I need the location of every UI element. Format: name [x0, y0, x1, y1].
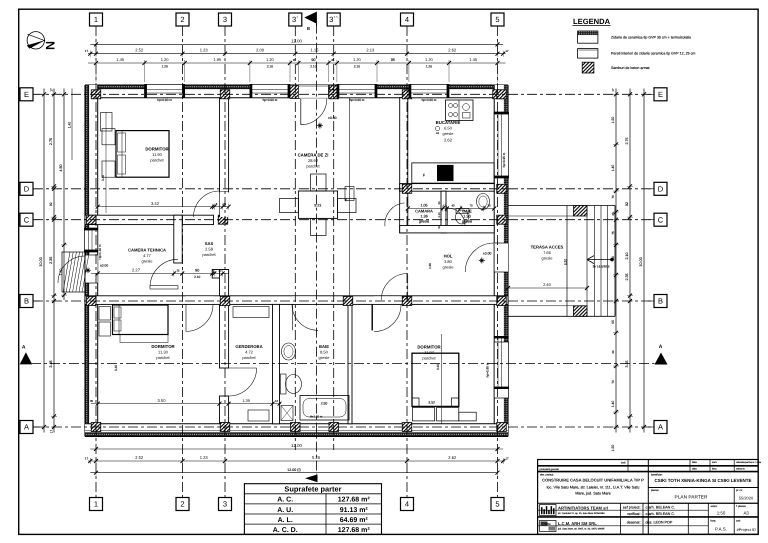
door camara (from living) — [400, 203, 407, 225]
svg-text:parchet: parchet — [242, 355, 256, 360]
svg-text:den. proiect:: den. proiect: — [540, 473, 554, 476]
svg-text:2.10: 2.10 — [438, 212, 441, 218]
svg-text:95: 95 — [391, 58, 395, 62]
svg-text:2.75: 2.75 — [49, 138, 53, 145]
axis grid lines — [95, 26, 97, 498]
svg-text:A. C.: A. C. — [277, 497, 293, 504]
svg-text:A. U.: A. U. — [277, 507, 293, 514]
svg-text:sem.: sem. — [712, 461, 718, 464]
logo lcm — [540, 521, 557, 532]
svg-text:cod:: cod: — [736, 520, 741, 523]
svg-text:A: A — [658, 423, 663, 432]
svg-text:str. Careiului 11, ap. 10, Sat: str. Careiului 11, ap. 10, Satu Mare ROM… — [558, 512, 605, 515]
svg-text:A3: A3 — [744, 511, 750, 516]
svg-text:28.92: 28.92 — [308, 158, 319, 163]
svg-text:2.58: 2.58 — [205, 247, 214, 252]
title block — [538, 460, 759, 535]
svg-text:17: 17 — [50, 88, 54, 92]
window right wall (dorm3) — [494, 342, 508, 398]
dim camara/baie row — [408, 208, 494, 210]
svg-text:1.40: 1.40 — [611, 165, 615, 172]
svg-text:BAIE: BAIE — [319, 344, 329, 349]
svg-text:c.arh. BELEAN C.: c.arh. BELEAN C. — [646, 512, 676, 516]
svg-text:A. C. D.: A. C. D. — [273, 527, 298, 534]
svg-text:proiectant general: proiectant general — [540, 468, 560, 471]
svg-text:CONSTRUIRE CASA DELOCUIT UNIFA: CONSTRUIRE CASA DELOCUIT UNIFAMILIALA TI… — [542, 478, 644, 483]
section line B-B — [316, 24, 318, 475]
svg-text:90: 90 — [195, 269, 199, 273]
svg-text:L.C.M. ARH SM SRL: L.C.M. ARH SM SRL — [558, 521, 597, 526]
svg-text:PLAN PARTER: PLAN PARTER — [675, 494, 708, 500]
window left wall (camera tehnica) — [84, 228, 97, 252]
axis boxes top — [90, 13, 103, 26]
interior wall gerderoba/baie2 — [273, 304, 280, 423]
svg-text:B: B — [24, 297, 29, 306]
svg-text:Pereti interiori de zidarie ce: Pereti interiori de zidarie ceramica tip… — [611, 52, 695, 56]
interior wall SAS bottom stub — [212, 270, 228, 279]
svg-text:4: 4 — [405, 500, 409, 509]
svg-text:jud. Satu Mare, str. 1907, nr.: jud. Satu Mare, str. 1907, nr. 20, SATU … — [557, 528, 605, 531]
svg-text:parchet: parchet — [202, 252, 216, 257]
svg-text:95: 95 — [611, 320, 615, 324]
svg-text:C: C — [24, 215, 30, 224]
svg-text:1.39: 1.39 — [242, 398, 250, 403]
svg-text:8.50: 8.50 — [320, 350, 329, 355]
svg-text:1.23: 1.23 — [200, 48, 209, 53]
door hol-living — [381, 274, 408, 301]
baie2 bathtub — [300, 396, 349, 421]
svg-text:2.10: 2.10 — [625, 253, 629, 260]
svg-text:92: 92 — [625, 202, 629, 206]
terrace acces — [508, 205, 615, 207]
svg-text:4.77: 4.77 — [143, 253, 152, 258]
svg-text:2.40: 2.40 — [543, 282, 552, 287]
living dining table — [298, 191, 337, 218]
svg-text:4.72: 4.72 — [245, 350, 254, 355]
svg-text:CAMERA TEHNICA: CAMERA TEHNICA — [128, 248, 166, 253]
svg-text:1.60: 1.60 — [428, 263, 432, 269]
dorm1 bed — [116, 131, 169, 178]
svg-text:data: data — [692, 468, 697, 471]
dim 3.42 row C — [98, 206, 229, 208]
gerderoba closets — [233, 307, 269, 318]
svg-text:2.62: 2.62 — [448, 455, 457, 460]
exterior wall bottom — [85, 424, 508, 437]
interior wall axis3 upper (dorm1 / living) — [220, 98, 229, 192]
section line A-A — [31, 363, 655, 365]
door camera tehnica — [150, 259, 178, 287]
svg-text:CSIKI TOTH XENIA-KINGA SI CSIK: CSIKI TOTH XENIA-KINGA SI CSIKI LEVENTE — [654, 478, 751, 483]
svg-text:30: 30 — [487, 204, 491, 208]
svg-text:2.52: 2.52 — [135, 455, 144, 460]
svg-text:N: N — [44, 41, 58, 50]
svg-text:E: E — [24, 90, 29, 99]
svg-text:5.28: 5.28 — [312, 455, 321, 460]
svg-text:2.10: 2.10 — [354, 65, 361, 69]
svg-text:sef proiect :: sef proiect : — [623, 505, 642, 509]
svg-text:gresie: gresie — [419, 220, 429, 224]
exterior wall right — [494, 85, 508, 437]
svg-text:30: 30 — [611, 212, 615, 216]
interior wall row D (kitchen bottom) — [400, 184, 495, 192]
svg-text:loc. Vile Satu Mare, str. Lale: loc. Vile Satu Mare, str. Lalelei, nr. 1… — [547, 486, 640, 490]
svg-text:75: 75 — [611, 231, 615, 235]
svg-text:17: 17 — [85, 49, 89, 53]
svg-text:1.40: 1.40 — [68, 122, 72, 128]
svg-text:1.20: 1.20 — [161, 57, 170, 62]
door gerderoba (axis3 wall) — [229, 368, 257, 396]
svg-text:1.45: 1.45 — [469, 57, 478, 62]
door left wall + exterior steps — [85, 255, 98, 283]
interior wall axis3 lower — [220, 270, 229, 369]
svg-text:127.68 m²: 127.68 m² — [338, 497, 371, 504]
svg-text:2.62: 2.62 — [444, 138, 453, 143]
svg-text:1.05: 1.05 — [420, 204, 427, 208]
svg-text:90: 90 — [611, 256, 615, 260]
dorm2 bed — [113, 305, 169, 335]
svg-text:desenat :: desenat : — [627, 520, 642, 524]
svg-text:75: 75 — [344, 198, 348, 202]
svg-text:70: 70 — [469, 204, 473, 208]
svg-text:1.15: 1.15 — [311, 48, 320, 53]
svg-text:ARTINITIATORS TEAM srl: ARTINITIATORS TEAM srl — [558, 505, 608, 510]
svg-text:1.20: 1.20 — [161, 65, 168, 69]
svg-text:25: 25 — [176, 269, 180, 273]
svg-text:A: A — [659, 344, 663, 350]
reinforced concrete columns — [91, 90, 101, 99]
svg-text:25: 25 — [293, 59, 296, 62]
svg-text:SAS: SAS — [205, 241, 214, 246]
svg-text:1: 1 — [94, 15, 98, 24]
svg-text:25: 25 — [331, 59, 334, 62]
svg-text:plansa:: plansa: — [651, 489, 659, 492]
svg-text:70: 70 — [611, 380, 615, 384]
svg-text:B: B — [307, 26, 310, 31]
svg-text:3.52: 3.52 — [428, 401, 435, 405]
svg-text:12.00: 12.00 — [291, 443, 302, 448]
svg-text:3.40: 3.40 — [436, 364, 440, 370]
svg-text:LEGENDA: LEGENDA — [573, 17, 611, 26]
svg-text:#Project ID: #Project ID — [737, 527, 756, 532]
svg-text:5: 5 — [495, 500, 499, 509]
svg-text:scara:: scara: — [711, 505, 718, 508]
svg-text:3.40: 3.40 — [114, 365, 118, 371]
svg-text:TERASA ACCES: TERASA ACCES — [531, 245, 564, 250]
svg-text:2.27: 2.27 — [132, 268, 141, 273]
svg-text:12.00 (I): 12.00 (I) — [287, 468, 300, 472]
interior wall baie2/dorm3 — [348, 304, 352, 423]
svg-text:2.75: 2.75 — [625, 138, 629, 145]
svg-text:hp=0.90 m: hp=0.90 m — [157, 98, 172, 102]
stair direction arrow — [588, 259, 612, 261]
baie2 toilet — [281, 374, 287, 394]
right dimensions — [615, 89, 617, 433]
svg-text:5.20: 5.20 — [564, 259, 568, 265]
exterior wall top — [85, 85, 508, 98]
svg-text:64.69 m²: 64.69 m² — [340, 517, 369, 524]
svg-text:des. LEON POP: des. LEON POP — [646, 520, 673, 524]
section marker B top — [304, 12, 316, 24]
svg-text:2.13: 2.13 — [366, 48, 375, 53]
svg-text:2: 2 — [180, 15, 184, 24]
svg-text:parchet: parchet — [422, 356, 436, 361]
svg-text:25: 25 — [218, 269, 222, 273]
kitchen counter + fridge — [412, 163, 494, 183]
interior wall camara left — [400, 191, 408, 233]
svg-text:3`: 3` — [292, 15, 299, 24]
interior wall row B — [85, 296, 508, 305]
svg-text:3.45: 3.45 — [49, 360, 53, 367]
dim 2.27 camera tehnica — [91, 273, 229, 275]
svg-text:17: 17 — [50, 430, 54, 434]
svg-text:faza: faza — [712, 468, 717, 471]
windows top wall — [145, 84, 185, 97]
svg-text:HOL: HOL — [444, 254, 453, 259]
svg-text:c.arh. BELEAN C.: c.arh. BELEAN C. — [646, 505, 676, 509]
svg-text:faza:: faza: — [711, 520, 717, 523]
table suprafete parter — [244, 484, 381, 535]
svg-text:30: 30 — [611, 350, 615, 354]
svg-text:25: 25 — [223, 202, 227, 206]
interior wall axis4 (living / kitchen) — [400, 98, 408, 192]
svg-text:CAMARA: CAMARA — [415, 209, 433, 214]
svg-text:3.40: 3.40 — [101, 175, 105, 181]
svg-text:5.23: 5.23 — [314, 204, 321, 208]
svg-text:40: 40 — [451, 204, 455, 208]
svg-text:10.00: 10.00 — [39, 257, 43, 267]
svg-text:DORMITOR: DORMITOR — [151, 344, 175, 349]
svg-text:gresie: gresie — [142, 259, 154, 264]
svg-text:4: 4 — [405, 15, 409, 24]
svg-text:BUCATARIE: BUCATARIE — [436, 120, 461, 125]
svg-text:7.66: 7.66 — [543, 250, 552, 255]
door right wall (hol-terrace) — [494, 243, 508, 272]
svg-text:3: 3 — [223, 15, 227, 24]
svg-text:12: 12 — [275, 399, 279, 403]
baie2 washing machine — [281, 406, 293, 421]
svg-text:C: C — [658, 215, 664, 224]
svg-text:1:50: 1:50 — [717, 511, 726, 516]
svg-text:2.35: 2.35 — [49, 257, 53, 264]
svg-text:2.10: 2.10 — [267, 65, 274, 69]
svg-text:DORMITOR: DORMITOR — [145, 147, 169, 152]
svg-text:1: 1 — [94, 500, 98, 509]
svg-text:92: 92 — [49, 202, 53, 206]
svg-text:CAMERA DE ZI: CAMERA DE ZI — [298, 153, 329, 158]
svg-text:D: D — [24, 184, 30, 193]
baie2 sink — [282, 343, 296, 360]
svg-text:hp=0.90 m: hp=0.90 m — [350, 98, 365, 102]
svg-text:2.35: 2.35 — [625, 274, 629, 281]
svg-text:Hp=1.10 m: Hp=1.10 m — [98, 244, 102, 260]
svg-text:referat/expertiza nr. / data: referat/expertiza nr. / data — [736, 461, 762, 464]
baie1 toilet + sink — [477, 194, 490, 210]
dorm1 wardrobe — [101, 113, 113, 132]
svg-text:17: 17 — [85, 456, 89, 460]
svg-text:pr. nr.:: pr. nr.: — [736, 489, 743, 492]
svg-text:gresie: gresie — [443, 131, 455, 136]
svg-text:2.50: 2.50 — [321, 402, 328, 406]
dorm3 bed — [412, 353, 459, 406]
svg-text:2: 2 — [180, 500, 184, 509]
svg-text:1.36: 1.36 — [420, 215, 427, 219]
svg-text:LCM: LCM — [545, 523, 550, 526]
svg-text:2.52: 2.52 — [135, 48, 144, 53]
interior wall camara/baie divider — [441, 191, 446, 233]
svg-text:BAIE: BAIE — [462, 209, 472, 214]
svg-text:hp=0.90 m: hp=0.90 m — [486, 362, 490, 377]
svg-text:91.13 m²: 91.13 m² — [340, 507, 369, 514]
svg-text:1.20: 1.20 — [426, 65, 433, 69]
svg-text:A. L.: A. L. — [278, 517, 293, 524]
svg-text:gresie: gresie — [443, 265, 455, 270]
svg-text:verif.: verif. — [621, 462, 627, 465]
interior dim 3.40 dorm1 — [105, 112, 107, 213]
svg-text:1.90: 1.90 — [463, 215, 470, 219]
section marker B bottom — [305, 474, 318, 482]
svg-text:parchet: parchet — [156, 355, 170, 360]
svg-text:verificat :: verificat : — [627, 512, 641, 516]
svg-text:hp=0.90 m: hp=0.90 m — [263, 98, 278, 102]
svg-text:DORMITOR: DORMITOR — [417, 345, 441, 350]
svg-text:3.80: 3.80 — [444, 259, 453, 264]
svg-text:2.10: 2.10 — [194, 275, 200, 279]
svg-text:17: 17 — [505, 49, 509, 53]
svg-text:E: E — [658, 90, 663, 99]
svg-text:parchet: parchet — [150, 158, 164, 163]
svg-text:4.50: 4.50 — [59, 164, 63, 171]
dorm2 nightstands — [99, 307, 111, 321]
dorm3 nightstands — [412, 407, 434, 421]
door dorm3 (row B) — [374, 296, 401, 304]
door baie1 — [447, 226, 465, 232]
svg-text:2.10: 2.10 — [310, 65, 317, 69]
exterior wall left — [85, 85, 98, 437]
axis boxes right — [648, 93, 654, 95]
svg-text:3tr 16.5/28.5: 3tr 16.5/28.5 — [593, 265, 610, 269]
left dimensions — [43, 89, 45, 433]
dorm1 nightstands — [102, 129, 115, 145]
svg-text:3: 3 — [223, 500, 227, 509]
svg-text:55/2020: 55/2020 — [739, 496, 754, 501]
svg-text:1.50: 1.50 — [611, 117, 615, 124]
svg-text:GERDEROBA: GERDEROBA — [235, 344, 262, 349]
svg-text:referat nr.: referat nr. — [736, 467, 746, 470]
bottom dimensions — [90, 448, 503, 450]
interior wall CT / SAS — [174, 215, 182, 263]
dim 2.40 terrace — [508, 287, 587, 289]
svg-text:10.00: 10.00 — [639, 257, 643, 267]
svg-text:±0.00: ±0.00 — [483, 252, 492, 256]
svg-text:11.30: 11.30 — [158, 350, 168, 355]
svg-text:5: 5 — [495, 15, 499, 24]
svg-text:f. plansa:: f. plansa: — [736, 505, 746, 508]
svg-text:hp=0.95 m: hp=0.95 m — [502, 152, 506, 167]
svg-text:1.20: 1.20 — [425, 57, 434, 62]
door dorm2 (row B) — [186, 296, 214, 304]
svg-text:gresie: gresie — [319, 355, 331, 360]
svg-text:parchet: parchet — [306, 164, 320, 169]
axis boxes left — [33, 93, 40, 95]
svg-text:3.45: 3.45 — [625, 361, 629, 368]
svg-text:70: 70 — [611, 195, 615, 199]
svg-text:hp=0.90 m: hp=0.90 m — [422, 98, 437, 102]
svg-text:1.20: 1.20 — [266, 57, 275, 62]
svg-text:17: 17 — [505, 456, 509, 460]
svg-text:90: 90 — [311, 58, 315, 62]
svg-text:±0.00: ±0.00 — [328, 116, 337, 120]
svg-text:3.42: 3.42 — [151, 201, 160, 206]
svg-text:12.00: 12.00 — [291, 38, 302, 43]
kitchen stove+sink — [446, 100, 474, 121]
svg-text:6.50: 6.50 — [444, 126, 453, 131]
svg-text:3``: 3`` — [329, 15, 338, 24]
reinforced concrete columns door posts — [290, 85, 299, 98]
interior wall camara+baie bottom — [400, 226, 495, 233]
svg-text:11.90: 11.90 — [152, 152, 162, 157]
svg-text:17: 17 — [611, 88, 615, 92]
svg-text:Samburi de beton armat: Samburi de beton armat — [611, 66, 650, 70]
svg-text:1.50: 1.50 — [59, 269, 63, 276]
svg-text:35: 35 — [90, 399, 94, 403]
svg-text:B: B — [658, 297, 663, 306]
svg-text:beneficiar:: beneficiar: — [651, 473, 663, 476]
svg-text:Mare, jud. Satu Mare: Mare, jud. Satu Mare — [575, 492, 610, 496]
svg-text:gresie: gresie — [542, 256, 554, 261]
door dorm1 (axis3 wall) — [220, 192, 228, 217]
svg-text:1.40: 1.40 — [611, 401, 615, 408]
svg-text:data: data — [692, 461, 697, 464]
dim 3.50 bottom rooms — [91, 403, 281, 405]
svg-text:2.00: 2.00 — [256, 48, 265, 53]
svg-text:gresie: gresie — [462, 220, 472, 224]
svg-text:Suprafete parter: Suprafete parter — [284, 485, 341, 494]
svg-text:P.A.S.: P.A.S. — [715, 527, 727, 532]
door baie2 (row B) — [292, 296, 318, 304]
svg-text:3.50: 3.50 — [158, 398, 167, 403]
svg-text:A: A — [22, 345, 26, 351]
svg-text:±0.00: ±0.00 — [100, 264, 108, 268]
svg-text:D: D — [658, 184, 664, 193]
axis boxes bottom — [90, 498, 103, 511]
svg-text:1.50: 1.50 — [611, 445, 615, 452]
svg-text:2.62: 2.62 — [448, 48, 457, 53]
svg-text:127.68 m²: 127.68 m² — [338, 527, 371, 534]
window right wall (kitchen) — [494, 112, 508, 178]
top dimensions — [90, 43, 503, 45]
entrance door top — [298, 85, 328, 98]
svg-text:1.45: 1.45 — [116, 57, 125, 62]
svg-text:1.23: 1.23 — [200, 455, 209, 460]
svg-text:Zidarie de ceramica tip GVP 30: Zidarie de ceramica tip GVP 30 cm + term… — [611, 36, 691, 40]
svg-text:11.97: 11.97 — [424, 350, 434, 355]
svg-text:A: A — [24, 423, 29, 432]
north arrow — [27, 32, 44, 49]
svg-text:1.95: 1.95 — [213, 57, 222, 62]
interior wall row C (camera tehnica top) — [85, 215, 214, 224]
logo artinitiators — [540, 505, 557, 516]
svg-text:1.20: 1.20 — [353, 57, 362, 62]
